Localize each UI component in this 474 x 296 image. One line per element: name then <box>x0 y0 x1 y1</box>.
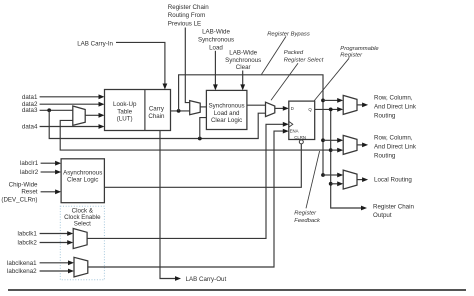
svg-text:Output: Output <box>373 212 392 219</box>
svg-text:Synchronous: Synchronous <box>209 103 245 110</box>
svg-text:Select: Select <box>74 221 91 228</box>
callout: packed register select <box>271 63 298 100</box>
wire: data3 branch into sync load clear logic <box>200 118 207 139</box>
svg-text:labclr1: labclr1 <box>20 160 39 167</box>
svg-text:Routing From: Routing From <box>168 12 205 19</box>
wire: LAB-wide synchronous clear <box>240 71 245 91</box>
svg-text:Register Select: Register Select <box>284 57 324 63</box>
wire: labclr2 <box>41 170 62 175</box>
mux: clock select <box>73 229 87 249</box>
svg-text:Row, Column,: Row, Column, <box>374 135 413 142</box>
wire: mux2 bottom input <box>331 148 344 153</box>
svg-text:CLRN: CLRN <box>294 135 306 140</box>
callout: register feedback <box>306 151 320 208</box>
wire: data3 <box>40 109 73 111</box>
callout: register bypass <box>262 36 287 74</box>
node: Q to mux3 <box>329 182 333 186</box>
svg-text:labclk2: labclk2 <box>18 239 38 246</box>
svg-text:Clear Logic: Clear Logic <box>211 117 242 124</box>
node: bypass to mux1 <box>321 99 325 103</box>
wire: clock enable line <box>88 129 289 267</box>
svg-text:Clear Logic: Clear Logic <box>67 177 98 184</box>
wire: labclk2 <box>40 240 74 245</box>
node: LUT output junction <box>177 109 181 113</box>
svg-text:Row, Column,: Row, Column, <box>374 95 413 102</box>
svg-text:D: D <box>291 106 294 111</box>
svg-text:data4: data4 <box>22 124 38 131</box>
svg-text:Routing: Routing <box>374 152 396 159</box>
svg-text:Chip-Wide: Chip-Wide <box>9 181 38 188</box>
svg-text:Reset: Reset <box>21 189 37 196</box>
node: Q to feedback <box>329 148 333 152</box>
svg-text:Previous LE: Previous LE <box>168 20 201 27</box>
wire: LAB carry-out <box>160 131 181 281</box>
svg-text:(DEV_CLRn): (DEV_CLRn) <box>1 196 37 203</box>
mux: packed register select <box>266 102 275 116</box>
wire: mux2 top input <box>323 138 343 143</box>
wire: data1 <box>40 94 105 99</box>
node: Q to mux1 <box>329 108 333 112</box>
svg-text:Register Bypass: Register Bypass <box>267 32 310 38</box>
block: Look-Up Table and Carry Chain <box>105 90 171 131</box>
svg-text:data1: data1 <box>22 94 38 101</box>
mux: clock enable select <box>74 257 88 277</box>
svg-text:Synchronous: Synchronous <box>198 36 234 43</box>
wire: register chain from previous LE <box>185 28 189 103</box>
svg-text:Look-Up: Look-Up <box>113 101 137 108</box>
wire: mux to sync logic <box>200 106 206 108</box>
wire: labclr1 <box>41 161 62 166</box>
svg-text:Register: Register <box>340 53 363 59</box>
wire: async clear to CLRN <box>104 144 301 187</box>
bottom rule <box>8 289 466 291</box>
mux: output mux 2 <box>343 135 368 154</box>
svg-text:Register: Register <box>294 210 317 216</box>
block: Asynchronous Clear Logic <box>61 159 104 203</box>
svg-text:Asynchronous: Asynchronous <box>63 169 102 176</box>
svg-text:Carry: Carry <box>149 105 165 112</box>
svg-text:Programmable: Programmable <box>340 46 379 52</box>
wire: LAB-wide synchronous load <box>213 51 218 91</box>
svg-text:LAB Carry-In: LAB Carry-In <box>77 40 113 47</box>
svg-text:(LUT): (LUT) <box>117 116 133 123</box>
svg-text:Packed: Packed <box>284 50 304 56</box>
svg-text:Load and: Load and <box>214 110 240 117</box>
wire: labclk1 <box>40 231 74 236</box>
wire: data2 <box>40 102 105 107</box>
mux: data3 / feedback select <box>73 106 85 125</box>
wire: LAB carry-in <box>116 42 167 89</box>
svg-text:labclkena2: labclkena2 <box>7 268 37 275</box>
wire: data3 packed register line <box>49 110 265 138</box>
block: Synchronous Load and Clear Logic <box>206 90 247 129</box>
svg-text:labclkena1: labclkena1 <box>7 260 37 267</box>
svg-text:LAB-Wide: LAB-Wide <box>229 50 257 57</box>
block: Clock & Clock Enable Select (dotted) <box>60 206 104 280</box>
svg-text:Local Routing: Local Routing <box>374 176 412 183</box>
svg-text:LAB Carry-Out: LAB Carry-Out <box>186 276 227 283</box>
svg-text:Chain: Chain <box>148 113 165 120</box>
wire: Q vertical <box>331 109 367 210</box>
register: programmable register <box>289 101 315 144</box>
wire: labclkena1 <box>40 260 74 265</box>
svg-text:ENA: ENA <box>290 129 299 134</box>
svg-text:Register Chain: Register Chain <box>168 4 209 11</box>
wire: mux to register D <box>275 106 289 111</box>
wire: carry chain output <box>171 110 190 112</box>
wire: chip-wide reset <box>41 189 62 194</box>
wire: mux3 bottom input <box>331 181 344 186</box>
mux: output mux 3 <box>343 170 368 189</box>
node: data3 junction <box>47 108 51 112</box>
svg-text:LAB-Wide: LAB-Wide <box>202 29 230 36</box>
wire: clock line <box>87 122 289 238</box>
svg-text:labclk1: labclk1 <box>18 231 38 238</box>
svg-text:And Direct Link: And Direct Link <box>374 144 417 151</box>
wire: register feedback <box>60 120 331 150</box>
svg-text:Table: Table <box>117 108 132 115</box>
wire: register bypass <box>179 75 323 175</box>
node: bypass to mux2 <box>321 138 325 142</box>
svg-text:Register Chain: Register Chain <box>373 204 414 211</box>
svg-text:data3: data3 <box>22 107 38 114</box>
svg-text:Routing: Routing <box>374 112 396 119</box>
svg-text:Clear: Clear <box>236 64 251 71</box>
svg-text:And Direct Link: And Direct Link <box>374 104 417 111</box>
wire: labclkena2 <box>40 269 74 274</box>
mux: output mux 1 <box>343 95 368 114</box>
wire: mux3 top input <box>323 173 343 178</box>
wire: register Q output <box>315 107 344 112</box>
node: bypass to mux3 <box>321 173 325 177</box>
svg-text:labclr2: labclr2 <box>20 169 39 176</box>
svg-text:Synchronous: Synchronous <box>225 57 261 64</box>
wire: data4 <box>40 124 105 129</box>
svg-text:Feedback: Feedback <box>294 218 321 224</box>
callout: programmable register <box>314 58 349 100</box>
wire: data3 mux output to LUT <box>85 113 104 118</box>
node: junction data3 to sync logic <box>198 137 202 141</box>
svg-text:Load: Load <box>209 44 223 51</box>
wire: sync logic output <box>247 104 266 106</box>
wire: mux1 top input <box>323 98 343 103</box>
mux: register chain select <box>190 101 201 115</box>
